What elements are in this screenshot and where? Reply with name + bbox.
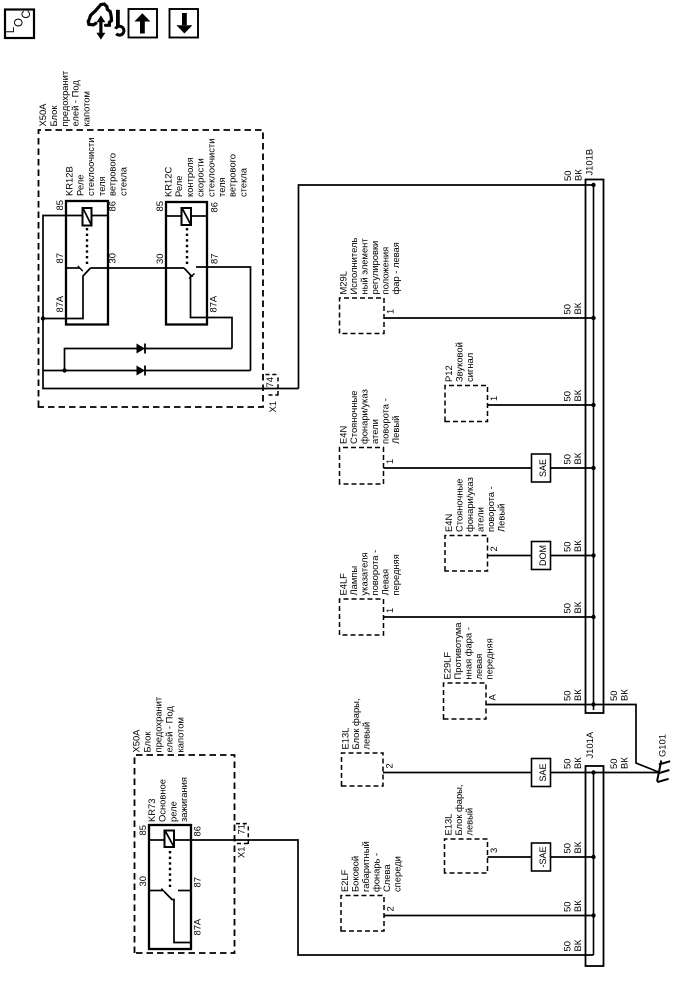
svg-text:Противотума: Противотума: [452, 622, 463, 680]
svg-text:указателя: указателя: [359, 552, 370, 595]
svg-text:Блок фары,: Блок фары,: [350, 698, 361, 749]
svg-text:левая: левая: [473, 654, 484, 680]
relay KR12B contact arm and 87A path: [43, 268, 91, 319]
svg-text:Стояночные: Стояночные: [348, 391, 359, 444]
svg-text:74: 74: [264, 377, 275, 387]
svg-text:X1: X1: [267, 401, 278, 412]
component E13L2 dashed box: [445, 839, 488, 873]
svg-text:G101: G101: [657, 734, 668, 757]
svg-text:50: 50: [562, 454, 573, 464]
svg-text:поворота -: поворота -: [485, 486, 496, 532]
svg-text:J101B: J101B: [584, 149, 595, 176]
svg-text:KR12C: KR12C: [163, 167, 174, 197]
svg-text:ВК: ВК: [572, 689, 583, 701]
wire E13L pin 3 to J101A: [488, 856, 532, 858]
svg-text:стеклоочисти: стеклоочисти: [85, 138, 96, 196]
connector X1 pin 74 bracket: [266, 374, 279, 376]
wire 30-30 between KR12B and KR12C: [91, 267, 185, 269]
svg-text:стекла: стекла: [237, 167, 248, 197]
svg-text:50: 50: [608, 691, 619, 701]
svg-text:X1: X1: [236, 847, 247, 858]
svg-text:Блок: Блок: [48, 105, 59, 127]
svg-text:фонарь -: фонарь -: [371, 853, 382, 892]
toolbar icon down-arrow button: [170, 9, 199, 38]
svg-text:J101A: J101A: [584, 731, 595, 758]
component E4N2 dashed box: [445, 536, 488, 572]
fuse block X50A (upper) dashed outline: [39, 130, 264, 407]
svg-text:85: 85: [54, 200, 65, 210]
svg-text:87A: 87A: [54, 295, 65, 312]
svg-text:86: 86: [192, 826, 203, 836]
svg-text:C: C: [21, 10, 33, 18]
component M29L dashed box: [340, 298, 385, 334]
svg-text:елей - Под: елей - Под: [164, 706, 175, 753]
svg-text:ВК: ВК: [573, 169, 584, 181]
component E4N1 dashed box: [340, 448, 384, 485]
svg-text:атели: атели: [475, 507, 486, 532]
component P12 dashed box: [445, 386, 488, 422]
svg-text:капотом: капотом: [81, 91, 92, 126]
svg-text:-SAE: -SAE: [538, 846, 548, 867]
svg-text:1: 1: [384, 459, 395, 464]
svg-text:левый: левый: [361, 722, 372, 750]
wire E4LF pin 1 to J101B: [384, 616, 594, 618]
wire E2LF pin 2 to J101A: [384, 915, 594, 917]
toolbar icon up-arrow button: [129, 9, 158, 38]
junction dot feed on J101B: [591, 183, 595, 187]
relay KR73 dotted actuator link: [169, 847, 171, 887]
svg-text:ный элемент: ный элемент: [359, 238, 370, 295]
svg-text:ВК: ВК: [572, 900, 583, 912]
junction dot E29LF on J101B: [591, 702, 595, 706]
relay KR12C contact tick: [189, 274, 195, 279]
svg-text:реле: реле: [167, 801, 178, 822]
svg-text:Исполнитель: Исполнитель: [348, 238, 359, 295]
toolbar icon component-location (outline with double arrow and wrench): [88, 4, 124, 40]
diode D2: [137, 366, 146, 376]
svg-text:Стояночные: Стояночные: [454, 479, 465, 532]
svg-text:1: 1: [488, 396, 499, 401]
svg-text:E29LF: E29LF: [442, 652, 453, 680]
svg-text:ВК: ВК: [619, 689, 630, 701]
svg-text:E4LF: E4LF: [338, 573, 349, 596]
relay KR73 contact arm and 87A path: [165, 892, 192, 943]
svg-text:теля: теля: [216, 177, 227, 197]
relay KR73 coil: [165, 831, 175, 848]
svg-text:50: 50: [562, 843, 573, 853]
relay KR12B body: [66, 201, 108, 325]
svg-text:Блок: Блок: [142, 731, 153, 753]
svg-text:Боковой: Боковой: [350, 856, 361, 892]
svg-text:Слева: Слева: [381, 864, 392, 892]
inline connector DOM (E4N): [532, 542, 551, 570]
svg-text:ВК: ВК: [572, 302, 583, 314]
svg-text:30: 30: [154, 254, 165, 264]
relay KR12C pin 87 stub to diode line 2: [196, 267, 251, 371]
toolbar icon LOC box: [5, 10, 34, 39]
svg-text:контроля: контроля: [184, 157, 195, 197]
svg-text:87A: 87A: [208, 295, 219, 312]
wire E13L pin 2 through J101A to ground: [383, 772, 532, 774]
svg-text:ВК: ВК: [572, 601, 583, 613]
svg-text:Основное: Основное: [157, 779, 168, 822]
wire KR73 pin 86 to ground bus J101A: [174, 840, 594, 955]
wire E4N pin 2 to J101B: [488, 555, 532, 557]
wire E4N pin 1 to J101B: [384, 467, 532, 469]
junction dot E4N1 on J101B: [591, 466, 595, 470]
svg-text:P12: P12: [443, 365, 454, 382]
svg-text:87: 87: [209, 254, 220, 264]
svg-text:спереди: спереди: [392, 856, 403, 892]
svg-text:E4N: E4N: [338, 426, 349, 444]
component E29LF dashed box: [444, 683, 487, 719]
diode line 1 (from KR12C 87A): [65, 349, 233, 371]
junction dot E4N2 on J101B: [591, 553, 595, 557]
svg-text:50: 50: [562, 759, 573, 769]
fuse block X50A (lower) dashed outline: [135, 755, 235, 953]
svg-text:KR73: KR73: [146, 799, 157, 822]
relay KR12C body: [166, 202, 207, 325]
svg-text:87: 87: [54, 253, 65, 263]
relay KR73 body: [149, 825, 191, 949]
junction dot E4LF on J101B: [591, 615, 595, 619]
svg-text:50: 50: [562, 603, 573, 613]
svg-text:KR12B: KR12B: [64, 166, 75, 196]
junction dot 87A KR12B on bus wire: [41, 316, 45, 320]
inline connector -SAE (E13L): [532, 843, 551, 871]
svg-text:85: 85: [154, 201, 165, 211]
svg-text:ветрового: ветрового: [227, 154, 238, 197]
junction dot diode line1 to line2: [62, 368, 66, 372]
wire X50A upper output to ground bus J101B: [299, 185, 594, 389]
svg-text:ветрового: ветрового: [107, 153, 118, 196]
relay KR73 coil wire pin 85 to 86: [149, 839, 165, 841]
svg-text:86: 86: [209, 202, 220, 212]
svg-text:ВК: ВК: [572, 757, 583, 769]
inline connector SAE (E4N): [532, 454, 551, 482]
svg-text:87A: 87A: [192, 918, 203, 935]
relay KR12C coil: [182, 208, 192, 225]
junction dot E13L1 on J101A: [591, 770, 595, 774]
svg-text:ВК: ВК: [572, 452, 583, 464]
svg-text:теля: теля: [96, 176, 107, 196]
svg-text:50: 50: [562, 171, 573, 181]
junction dot P12 on J101B: [591, 403, 595, 407]
component E13L1 dashed box: [342, 753, 384, 786]
svg-text:фар - левая: фар - левая: [390, 242, 401, 294]
diode D1: [137, 344, 146, 354]
svg-text:фонари/указ: фонари/указ: [359, 389, 370, 444]
svg-text:поворота -: поворота -: [380, 398, 391, 444]
svg-text:левый: левый: [464, 808, 475, 836]
diode line 2 (from KR12C 87): [43, 370, 251, 372]
component E4LF dashed box: [340, 599, 384, 635]
svg-text:Левая: Левая: [380, 569, 391, 596]
ground G101 symbol: [657, 761, 661, 782]
svg-text:71: 71: [236, 824, 247, 834]
svg-text:50: 50: [608, 759, 619, 769]
svg-text:SAE: SAE: [538, 763, 548, 781]
svg-text:ВК: ВК: [572, 939, 583, 951]
svg-text:ВК: ВК: [572, 841, 583, 853]
svg-text:E2LF: E2LF: [339, 869, 350, 892]
relay KR12B dotted actuator link: [86, 226, 88, 265]
svg-text:Блок фары,: Блок фары,: [453, 784, 464, 835]
connector X1 pin 71 bracket: [236, 823, 249, 825]
svg-text:предохранит: предохранит: [153, 696, 164, 752]
wire 85/87A bus inside X50A upper: [43, 216, 299, 389]
svg-text:Реле: Реле: [74, 175, 85, 196]
svg-text:стекла: стекла: [118, 166, 129, 196]
relay KR12C coil wire pin 85 to 86: [166, 215, 182, 217]
svg-text:50: 50: [562, 542, 573, 552]
svg-text:Левый: Левый: [390, 416, 401, 444]
svg-text:50: 50: [562, 391, 573, 401]
svg-text:сигнал: сигнал: [464, 353, 475, 382]
svg-text:зажигания: зажигания: [178, 777, 189, 822]
svg-text:2: 2: [384, 763, 395, 768]
wire P12 pin 1 to J101B: [488, 404, 594, 406]
svg-text:Левый: Левый: [496, 504, 507, 532]
wire E29LF pin A through J101B to ground: [486, 705, 659, 773]
svg-text:SAE: SAE: [538, 459, 548, 477]
svg-text:скорости: скорости: [195, 158, 206, 197]
junction dot M29L on J101B: [591, 316, 595, 320]
svg-text:капотом: капотом: [175, 717, 186, 752]
svg-text:атели: атели: [369, 419, 380, 444]
svg-text:30: 30: [107, 253, 118, 263]
svg-text:E13L: E13L: [443, 814, 454, 836]
svg-text:габаритный: габаритный: [360, 841, 371, 892]
ground bus J101B: [586, 180, 604, 714]
svg-text:передняя: передняя: [390, 554, 401, 595]
svg-text:регулировки: регулировки: [369, 241, 380, 295]
ground bus J101A: [586, 766, 604, 966]
svg-text:стеклоочисти: стеклоочисти: [205, 139, 216, 197]
svg-text:M29L: M29L: [338, 271, 349, 294]
svg-text:Лампы: Лампы: [348, 566, 359, 596]
svg-text:3: 3: [488, 848, 499, 853]
svg-text:A: A: [487, 694, 498, 701]
inline connector SAE (E13L): [532, 759, 551, 787]
relay KR12C dotted actuator link: [186, 225, 188, 264]
junction dot E2LF on J101A: [591, 913, 595, 917]
relay KR12B coil: [83, 208, 92, 226]
svg-text:фонари/указ: фонари/указ: [464, 477, 475, 532]
pin 87 KR12B stub: [66, 267, 80, 269]
relay KR73 pin 87 stub: [178, 890, 191, 892]
pin 30 KR73 stub: [149, 890, 163, 892]
junction dot E13L2 on J101A: [591, 855, 595, 859]
svg-text:ВК: ВК: [619, 757, 630, 769]
svg-text:Реле: Реле: [173, 176, 184, 197]
svg-text:2: 2: [488, 546, 499, 551]
svg-text:Звуковой: Звуковой: [454, 342, 465, 382]
svg-text:ВК: ВК: [572, 540, 583, 552]
svg-text:87: 87: [192, 877, 203, 887]
svg-text:2: 2: [385, 906, 396, 911]
svg-text:1: 1: [385, 309, 396, 314]
svg-text:предохранит: предохранит: [59, 70, 70, 126]
svg-text:елей - Под: елей - Под: [70, 80, 81, 127]
svg-text:поворота -: поворота -: [369, 550, 380, 596]
svg-text:X50A: X50A: [131, 729, 142, 753]
svg-text:ВК: ВК: [572, 389, 583, 401]
svg-text:86: 86: [107, 201, 118, 211]
svg-text:30: 30: [137, 876, 148, 886]
relay KR12C contact arm and 87A path: [184, 268, 232, 349]
relay KR12B coil wire pin 85 to 86: [66, 215, 83, 217]
svg-text:DOM: DOM: [538, 545, 548, 566]
component E2LF dashed box: [341, 896, 384, 932]
svg-text:X50A: X50A: [37, 103, 48, 127]
svg-text:85: 85: [137, 825, 148, 835]
svg-text:50: 50: [562, 304, 573, 314]
svg-text:50: 50: [562, 691, 573, 701]
svg-text:положения: положения: [380, 247, 391, 295]
svg-text:E13L: E13L: [340, 728, 351, 750]
svg-text:передняя: передняя: [484, 638, 495, 679]
svg-text:E4N: E4N: [443, 514, 454, 532]
svg-text:1: 1: [384, 608, 395, 613]
svg-text:50: 50: [562, 902, 573, 912]
svg-text:50: 50: [562, 941, 573, 951]
svg-text:нная фара -: нная фара -: [463, 627, 474, 679]
wire M29L pin 1 to J101B: [384, 317, 594, 319]
